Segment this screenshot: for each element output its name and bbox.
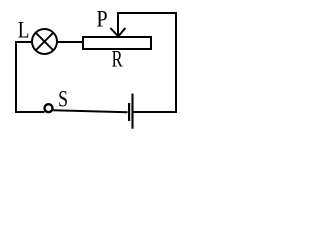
svg-text:L: L bbox=[18, 17, 30, 42]
wire: top-left horizontal to lamp bbox=[15, 41, 33, 43]
wire: bottom-left to switch bbox=[15, 111, 45, 113]
wiper arrowhead left wing bbox=[110, 28, 118, 36]
wire: battery to bottom-right corner bbox=[133, 111, 177, 113]
resistor R (rheostat body) bbox=[83, 37, 151, 49]
wiper P: vertical stem bbox=[117, 12, 119, 35]
wire: lamp to rheostat bbox=[57, 41, 84, 43]
wire: left vertical side bbox=[15, 41, 17, 113]
svg-text:S: S bbox=[58, 87, 68, 112]
wire: top horizontal from wiper to right side bbox=[117, 12, 177, 14]
svg-text:R: R bbox=[112, 47, 123, 72]
lamp L bbox=[32, 29, 57, 54]
wire: right vertical side bbox=[175, 12, 177, 113]
battery negative short plate bbox=[128, 103, 130, 121]
wire: switch lever to battery bbox=[53, 110, 127, 112]
battery positive long plate bbox=[131, 94, 133, 129]
wiper arrowhead right wing bbox=[118, 28, 125, 36]
switch S contact circle bbox=[45, 104, 53, 112]
svg-text:P: P bbox=[96, 6, 107, 31]
